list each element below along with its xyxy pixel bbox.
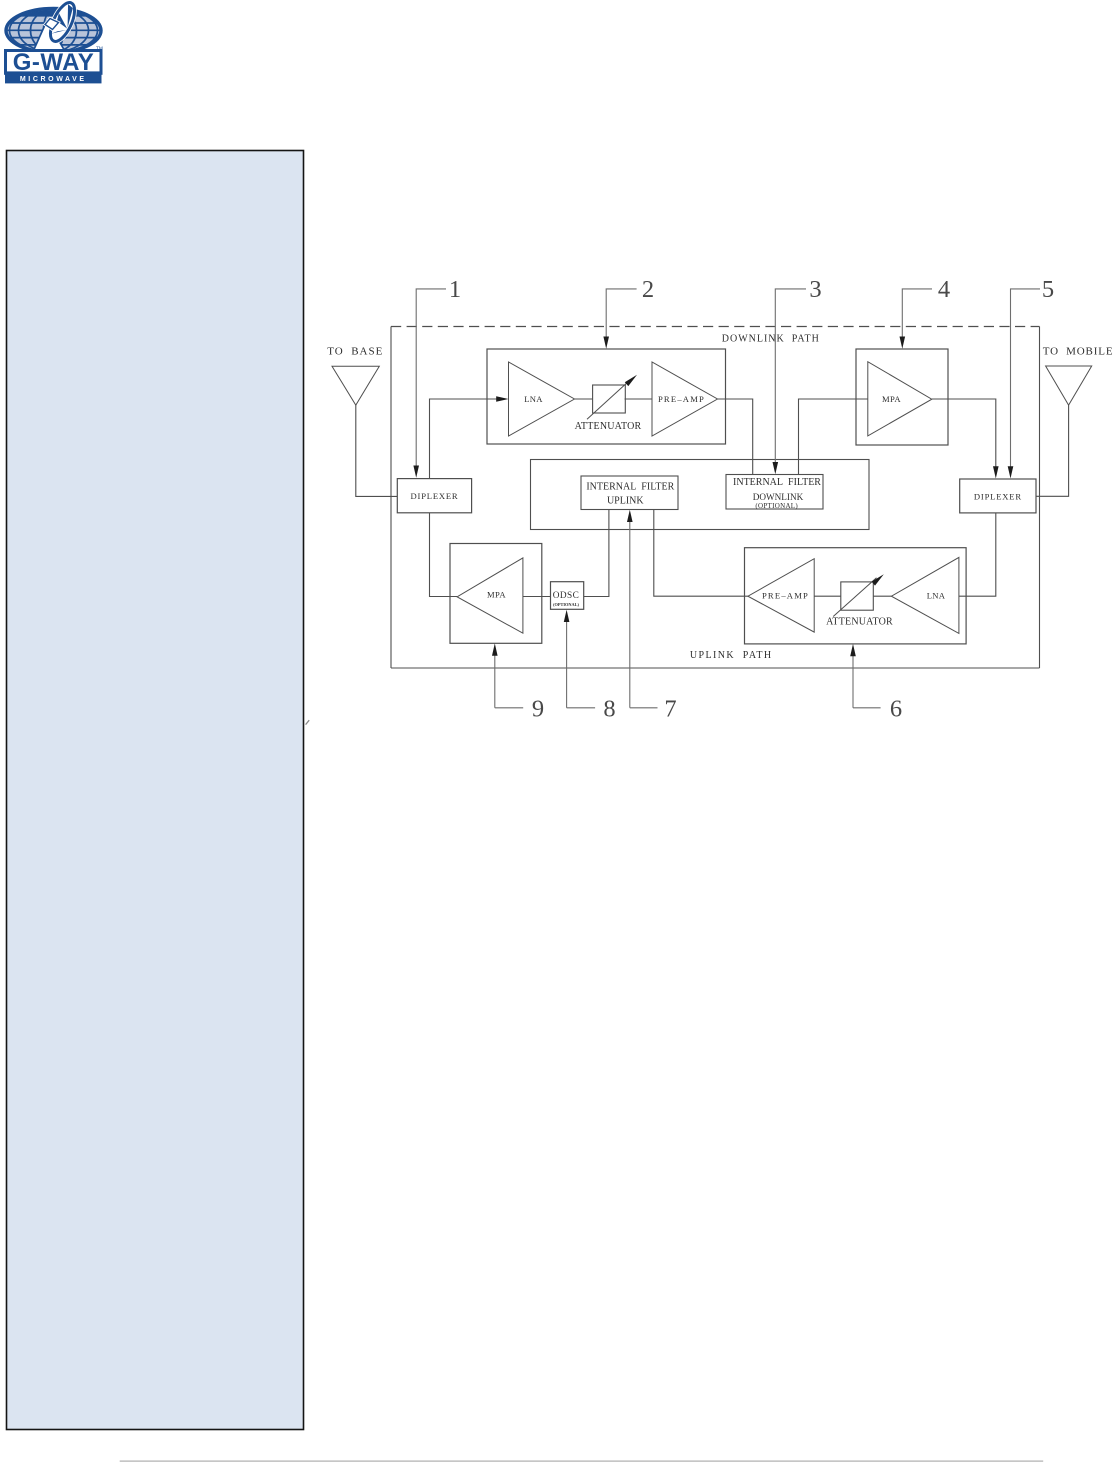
- globe: [4, 5, 103, 53]
- svg-text:MICROWAVE: MICROWAVE: [20, 76, 87, 83]
- svg-text:1: 1: [449, 276, 461, 303]
- wire: uplink MPA to left diplexer: [430, 513, 458, 597]
- amplifier MPA box (uplink): [450, 544, 542, 644]
- stray tick mark: [306, 720, 310, 724]
- svg-text:MPA: MPA: [487, 590, 506, 600]
- svg-text:UPLINK PATH: UPLINK PATH: [690, 650, 773, 661]
- svg-text:7: 7: [664, 696, 676, 723]
- internal filter downlink (optional): [726, 475, 823, 510]
- svg-text:ATTENUATOR: ATTENUATOR: [826, 617, 893, 628]
- wire: base antenna to diplexer: [356, 405, 398, 496]
- svg-text:8: 8: [603, 696, 615, 723]
- attenuator (uplink): [826, 574, 893, 627]
- callout 4 (downlink MPA): [900, 276, 951, 349]
- svg-text:DIPLEXER: DIPLEXER: [411, 491, 459, 501]
- enclosure outline (dashed top): [391, 327, 1040, 669]
- svg-text:ATTENUATOR: ATTENUATOR: [575, 421, 642, 432]
- antenna (base side): [332, 366, 379, 405]
- callout 1 (left diplexer): [413, 276, 461, 478]
- svg-text:INTERNAL FILTER: INTERNAL FILTER: [733, 477, 821, 488]
- wire: attenuator to pre-amp: [625, 398, 653, 400]
- svg-text:DOWNLINK: DOWNLINK: [753, 492, 804, 502]
- svg-text:PRE–AMP: PRE–AMP: [762, 591, 809, 601]
- callout 2 (downlink amp assembly): [603, 276, 654, 349]
- amplifier LNA (downlink): [509, 362, 575, 436]
- wire: uplink pre-amp to uplink filter: [654, 510, 748, 597]
- antenna (mobile side): [1046, 366, 1092, 405]
- svg-text:(OPTIONAL): (OPTIONAL): [755, 502, 798, 510]
- svg-text:MPA: MPA: [882, 394, 901, 404]
- svg-text:LNA: LNA: [524, 394, 543, 404]
- callout 6 (uplink amp assembly): [850, 644, 902, 723]
- label TO BASE: [327, 345, 383, 357]
- label TO MOBILE: [1043, 346, 1114, 358]
- diplexer (left): [397, 479, 471, 513]
- G-WAY Microwave logo: [4, 0, 103, 83]
- pedestal: [34, 22, 65, 51]
- svg-text:2: 2: [642, 276, 654, 303]
- amplifier MPA box (downlink): [856, 349, 948, 445]
- callout 7 (uplink filter): [627, 510, 677, 723]
- svg-text:LNA: LNA: [927, 591, 946, 601]
- svg-text:TO BASE: TO BASE: [327, 345, 383, 357]
- wire: pre-amp to downlink filter: [718, 399, 753, 475]
- wire: attenuator to pre-amp (uplink): [814, 595, 841, 597]
- sidebar panel: [7, 151, 304, 1430]
- ODSC (optional): [551, 582, 584, 610]
- diplexer (right): [960, 479, 1036, 513]
- svg-text:9: 9: [532, 696, 544, 723]
- internal filter assembly box: [531, 460, 870, 530]
- svg-text:4: 4: [938, 276, 950, 303]
- uplink amplifier assembly box: [745, 548, 967, 644]
- satellite dish: [45, 0, 80, 45]
- footer rule: [120, 1460, 1043, 1462]
- callout 8 (ODSC): [564, 610, 616, 723]
- svg-text:DIPLEXER: DIPLEXER: [974, 492, 1022, 502]
- svg-text:UPLINK: UPLINK: [607, 495, 644, 506]
- attenuator (downlink): [575, 375, 642, 432]
- svg-text:(OPTIONAL): (OPTIONAL): [553, 602, 579, 607]
- amplifier LNA (uplink): [891, 557, 959, 633]
- MICROWAVE band: [6, 72, 102, 83]
- svg-text:6: 6: [890, 696, 902, 723]
- svg-text:ODSC: ODSC: [553, 591, 579, 601]
- svg-text:3: 3: [809, 276, 821, 303]
- wire: right diplexer to uplink LNA: [959, 513, 996, 596]
- wire: uplink filter to ODSC: [584, 510, 609, 597]
- downlink amplifier assembly box: [487, 349, 726, 444]
- internal filter uplink: [581, 476, 678, 510]
- label DOWNLINK PATH: [722, 334, 820, 345]
- svg-text:PRE–AMP: PRE–AMP: [658, 394, 705, 404]
- amplifier PRE-AMP (uplink): [748, 559, 814, 632]
- callout 9 (uplink MPA): [492, 643, 544, 722]
- amplifier PRE-AMP (downlink): [652, 362, 718, 436]
- label UPLINK PATH: [690, 650, 773, 661]
- wire: diplexer to LNA with arrow: [430, 396, 509, 478]
- wire: LNA to attenuator: [575, 398, 593, 400]
- wire: LNA to attenuator (uplink): [873, 595, 891, 597]
- callout 3 (downlink filter): [773, 276, 822, 475]
- wire: MPA to right diplexer with arrow: [932, 399, 999, 479]
- wire: downlink filter to MPA: [799, 399, 868, 475]
- G-WAY wordmark box: [6, 49, 102, 76]
- wire: mobile antenna to diplexer: [1036, 405, 1069, 496]
- svg-text:DOWNLINK PATH: DOWNLINK PATH: [722, 334, 820, 345]
- svg-text:TO MOBILE: TO MOBILE: [1043, 346, 1114, 358]
- svg-text:INTERNAL FILTER: INTERNAL FILTER: [586, 482, 674, 493]
- wire: ODSC to uplink MPA: [523, 596, 551, 598]
- svg-text:5: 5: [1042, 276, 1054, 303]
- callout 5 (right diplexer): [1008, 276, 1054, 479]
